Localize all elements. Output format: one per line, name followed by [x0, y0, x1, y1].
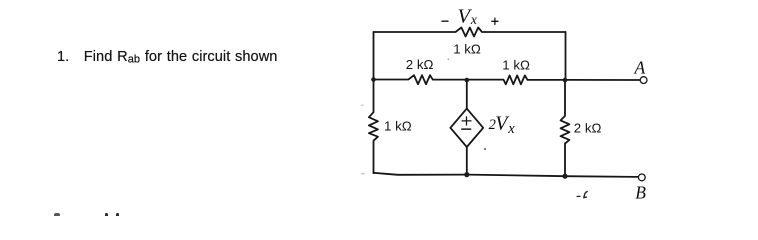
svg-text:1 kΩ: 1 kΩ [453, 41, 481, 56]
svg-text:x: x [507, 121, 515, 137]
svg-text:2 kΩ: 2 kΩ [574, 120, 602, 135]
svg-text:B: B [635, 182, 646, 202]
svg-text:A: A [634, 57, 646, 77]
svg-text:1 kΩ: 1 kΩ [384, 118, 412, 133]
svg-text:x: x [470, 12, 477, 27]
svg-text:1 kΩ: 1 kΩ [502, 57, 530, 72]
svg-text:2 kΩ: 2 kΩ [406, 57, 434, 72]
